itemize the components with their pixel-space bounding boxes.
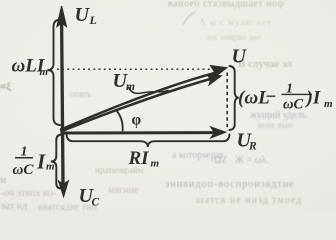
svg-text:I: I (36, 150, 46, 174)
svg-text:C: C (92, 197, 100, 209)
svg-text:ват нд: ват нд (1, 201, 27, 211)
svg-text:R: R (248, 141, 257, 153)
svg-text:)I: )I (305, 88, 321, 109)
vector UR shaft (62, 131, 215, 134)
svg-text:эннвидоп-воспроизвдтне: эннвидоп-воспроизвдтне (165, 179, 294, 190)
vector U arrowhead (211, 66, 227, 79)
svg-text:m: m (40, 66, 49, 78)
svg-text:ωC: ωC (13, 162, 35, 178)
dashed projection line from U tip down to UR tip (226, 73, 228, 131)
svg-text:U: U (75, 4, 91, 26)
svg-text:m: m (46, 161, 55, 173)
angle phi arc (116, 110, 123, 131)
svg-text:m: m (126, 81, 135, 93)
svg-text:В случае эл: В случае эл (238, 58, 293, 70)
svg-text:RI: RI (128, 148, 150, 169)
brace for RIm (below UR) (67, 135, 230, 148)
svg-text:м: м (0, 175, 7, 186)
svg-text:φ: φ (132, 112, 142, 129)
svg-text:А ы с муаю але: А ы с муаю але (199, 17, 272, 27)
svg-text:опвть: опвть (70, 89, 91, 99)
node A: origin junction (60, 128, 64, 132)
svg-text:m: m (151, 158, 160, 170)
svg-text:ωC: ωC (283, 97, 303, 113)
vector UR arrowhead (211, 127, 226, 138)
vector U shaft (61, 73, 215, 130)
wire: vertical axis shaft (UL up, UC down through origin) (62, 20, 63, 183)
svg-text:m: m (324, 98, 333, 110)
svg-text:шатся не инзд тмоед: шатся не инзд тмоед (196, 195, 302, 206)
vector Um shaft (62, 79, 213, 132)
brace for (wL-1/wC)Im (right side) (230, 66, 239, 130)
vector UL arrowhead (57, 6, 66, 27)
brace for (1/wC)Im (left of UC) (51, 135, 62, 189)
svg-text:−: − (265, 87, 277, 108)
vector Um arrowhead (207, 75, 221, 85)
vector UC arrowhead (59, 181, 69, 197)
leader from Um label to Um shaft (129, 88, 169, 94)
svg-text:элс очярко эне: элс очярко эне (206, 32, 261, 42)
dotted construction line at UL tip level (57, 68, 225, 70)
svg-text:U: U (232, 46, 248, 68)
brace for wLIm (left of UL) (48, 20, 61, 126)
svg-text:ваноео стазвыдшает ноψ: ваноео стазвыдшает ноψ (168, 0, 285, 10)
svg-text:мвгнне: мвгнне (108, 185, 139, 196)
svg-text:а которsepar: а которsepar (172, 150, 224, 161)
svg-text:≡ξ: ≡ξ (0, 81, 11, 93)
svg-text:L: L (89, 13, 97, 27)
svg-text:-оч этвпх во-: -оч этвпх во- (1, 188, 56, 199)
svg-text:коне вып: коне вып (258, 120, 293, 130)
